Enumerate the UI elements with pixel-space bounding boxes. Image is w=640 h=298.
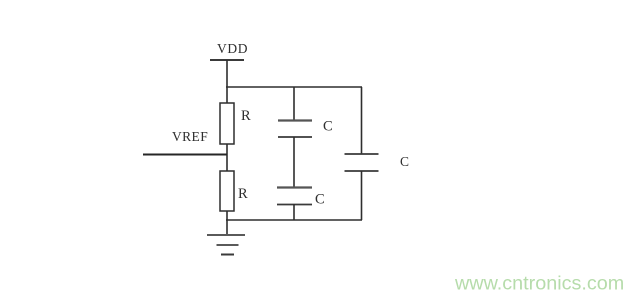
- wire C2 to bottom rail: [293, 204, 295, 220]
- wire VDD to top rail: [226, 60, 228, 104]
- svg-text:C: C: [323, 119, 333, 135]
- wire VREF: [143, 154, 227, 156]
- capacitor C2: [277, 188, 312, 205]
- wire R1 to R2: [226, 144, 228, 171]
- svg-text:www.cntronics.com: www.cntronics.com: [454, 273, 624, 295]
- resistor R1: [220, 103, 234, 144]
- wire R2 to ground: [226, 211, 228, 235]
- ground: [207, 235, 245, 255]
- wire top rail to C1: [293, 87, 295, 121]
- wire bottom rail: [226, 219, 362, 221]
- power VDD bar: [210, 59, 244, 61]
- svg-text:VREF: VREF: [172, 129, 208, 144]
- svg-text:R: R: [238, 186, 248, 202]
- wire C3 to bottom rail: [361, 171, 363, 220]
- resistor R2: [220, 171, 234, 211]
- svg-text:C: C: [315, 192, 325, 208]
- svg-text:VDD: VDD: [217, 41, 248, 56]
- capacitor C3: [345, 154, 379, 171]
- wire top rail: [226, 86, 362, 88]
- wire top rail to C3: [361, 87, 363, 154]
- svg-text:C: C: [400, 154, 409, 169]
- svg-text:R: R: [241, 108, 251, 124]
- wire C1 to C2: [293, 137, 295, 188]
- capacitor C1: [278, 121, 312, 138]
